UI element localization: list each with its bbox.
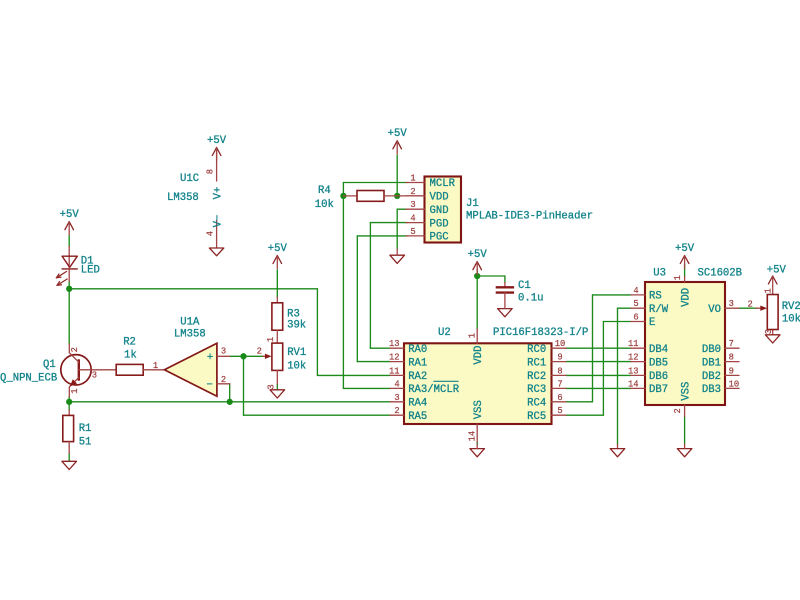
svg-text:12: 12 — [628, 353, 639, 363]
svg-text:MCLR: MCLR — [430, 178, 456, 190]
svg-text:+5V: +5V — [207, 135, 227, 147]
svg-text:VO: VO — [708, 304, 721, 316]
svg-text:4: 4 — [394, 379, 399, 389]
svg-text:RA1: RA1 — [408, 357, 427, 369]
svg-text:+: + — [207, 352, 213, 364]
svg-text:8: 8 — [206, 169, 216, 174]
svg-text:+5V: +5V — [767, 265, 787, 277]
svg-text:14: 14 — [628, 379, 639, 389]
svg-text:LM358: LM358 — [167, 192, 199, 204]
svg-text:5: 5 — [557, 406, 562, 416]
svg-text:4: 4 — [410, 214, 415, 224]
svg-text:2: 2 — [221, 375, 226, 385]
svg-text:9: 9 — [729, 366, 734, 376]
svg-text:13: 13 — [389, 339, 400, 349]
svg-text:11: 11 — [389, 366, 400, 376]
svg-text:2: 2 — [257, 346, 262, 356]
svg-text:PGD: PGD — [430, 218, 449, 230]
svg-text:3: 3 — [221, 346, 226, 356]
svg-text:E: E — [649, 317, 655, 329]
svg-text:7: 7 — [557, 379, 562, 389]
svg-text:3: 3 — [729, 299, 734, 309]
svg-text:2: 2 — [673, 408, 683, 413]
svg-text:1: 1 — [764, 288, 774, 293]
svg-text:3: 3 — [266, 384, 276, 389]
svg-text:3: 3 — [394, 393, 399, 403]
svg-text:6: 6 — [557, 393, 562, 403]
svg-text:U2: U2 — [438, 327, 451, 339]
svg-text:VDD: VDD — [430, 192, 449, 204]
svg-text:2: 2 — [748, 299, 753, 309]
svg-text:3: 3 — [410, 200, 415, 210]
svg-text:Q_NPN_ECB: Q_NPN_ECB — [0, 373, 57, 385]
svg-text:MPLAB-IDE3-PinHeader: MPLAB-IDE3-PinHeader — [466, 211, 593, 223]
svg-text:+5V: +5V — [268, 243, 288, 255]
svg-text:RC1: RC1 — [527, 357, 546, 369]
svg-text:+5V: +5V — [60, 209, 80, 221]
svg-text:51: 51 — [79, 436, 92, 448]
svg-text:PIC16F18323-I/P: PIC16F18323-I/P — [493, 327, 588, 339]
svg-text:RA0: RA0 — [408, 344, 427, 356]
svg-text:R4: R4 — [318, 185, 331, 197]
svg-text:1: 1 — [153, 361, 158, 371]
svg-text:+5V: +5V — [468, 249, 488, 261]
svg-text:C1: C1 — [518, 280, 531, 292]
svg-text:RC3: RC3 — [527, 384, 546, 396]
svg-text:+5V: +5V — [388, 128, 408, 140]
svg-text:3: 3 — [92, 371, 97, 381]
svg-text:1: 1 — [266, 337, 276, 342]
svg-text:DB3: DB3 — [702, 384, 721, 396]
svg-text:5: 5 — [633, 299, 638, 309]
svg-text:4: 4 — [633, 286, 638, 296]
svg-text:RV2: RV2 — [782, 301, 800, 313]
svg-text:VSS: VSS — [680, 382, 692, 401]
svg-text:R1: R1 — [79, 423, 92, 435]
svg-text:VDD: VDD — [680, 288, 692, 307]
svg-text:8: 8 — [557, 366, 562, 376]
svg-text:10: 10 — [729, 379, 740, 389]
svg-text:1k: 1k — [124, 349, 137, 361]
svg-text:9: 9 — [557, 353, 562, 363]
svg-text:GND: GND — [430, 205, 449, 217]
svg-text:14: 14 — [468, 431, 478, 442]
svg-text:U1C: U1C — [180, 173, 199, 185]
svg-text:1: 1 — [70, 388, 80, 393]
svg-text:10k: 10k — [782, 314, 800, 326]
svg-text:J1: J1 — [466, 198, 479, 210]
svg-text:V+: V+ — [213, 187, 225, 200]
svg-text:R2: R2 — [123, 337, 136, 349]
svg-text:8: 8 — [729, 353, 734, 363]
svg-text:12: 12 — [389, 353, 400, 363]
svg-text:+5V: +5V — [675, 243, 695, 255]
svg-text:U1A: U1A — [180, 317, 200, 329]
svg-text:V−: V− — [213, 215, 225, 228]
svg-text:LED: LED — [81, 265, 100, 277]
svg-text:U3: U3 — [653, 268, 666, 280]
svg-text:DB6: DB6 — [649, 371, 668, 383]
svg-text:RS: RS — [649, 291, 662, 303]
svg-text:0.1u: 0.1u — [518, 292, 543, 304]
svg-text:RC4: RC4 — [527, 398, 546, 410]
svg-text:1: 1 — [410, 174, 415, 184]
svg-text:10: 10 — [555, 339, 566, 349]
svg-text:1: 1 — [468, 333, 478, 338]
svg-text:RC2: RC2 — [527, 371, 546, 383]
svg-text:DB7: DB7 — [649, 384, 668, 396]
svg-text:RA4: RA4 — [408, 398, 427, 410]
svg-text:39k: 39k — [287, 319, 306, 331]
svg-text:RA3/MCLR: RA3/MCLR — [408, 384, 460, 396]
svg-text:10k: 10k — [315, 199, 334, 211]
svg-text:11: 11 — [628, 339, 639, 349]
svg-text:6: 6 — [633, 313, 638, 323]
svg-text:2: 2 — [410, 187, 415, 197]
svg-text:PGC: PGC — [430, 232, 449, 244]
svg-text:Q1: Q1 — [43, 359, 56, 371]
svg-text:SC1602B: SC1602B — [698, 268, 743, 280]
svg-text:7: 7 — [729, 339, 734, 349]
svg-text:DB1: DB1 — [702, 357, 721, 369]
svg-text:RC5: RC5 — [527, 411, 546, 423]
svg-text:DB4: DB4 — [649, 344, 668, 356]
svg-text:RC0: RC0 — [527, 344, 546, 356]
svg-text:RV1: RV1 — [287, 347, 306, 359]
svg-text:2: 2 — [70, 347, 80, 352]
svg-text:13: 13 — [628, 366, 639, 376]
svg-text:3: 3 — [764, 329, 774, 334]
svg-text:5: 5 — [410, 227, 415, 237]
svg-text:R/W: R/W — [649, 304, 669, 316]
svg-text:−: − — [207, 379, 213, 391]
svg-text:RA2: RA2 — [408, 371, 427, 383]
svg-text:10k: 10k — [287, 360, 306, 372]
svg-text:1: 1 — [673, 275, 683, 280]
svg-text:2: 2 — [394, 406, 399, 416]
svg-text:DB5: DB5 — [649, 357, 668, 369]
svg-text:DB2: DB2 — [702, 371, 721, 383]
svg-text:RA5: RA5 — [408, 411, 427, 423]
svg-text:VSS: VSS — [473, 400, 485, 419]
svg-text:DB0: DB0 — [702, 344, 721, 356]
svg-text:LM358: LM358 — [174, 329, 206, 341]
svg-text:VDD: VDD — [473, 346, 485, 365]
svg-text:4: 4 — [206, 231, 216, 236]
